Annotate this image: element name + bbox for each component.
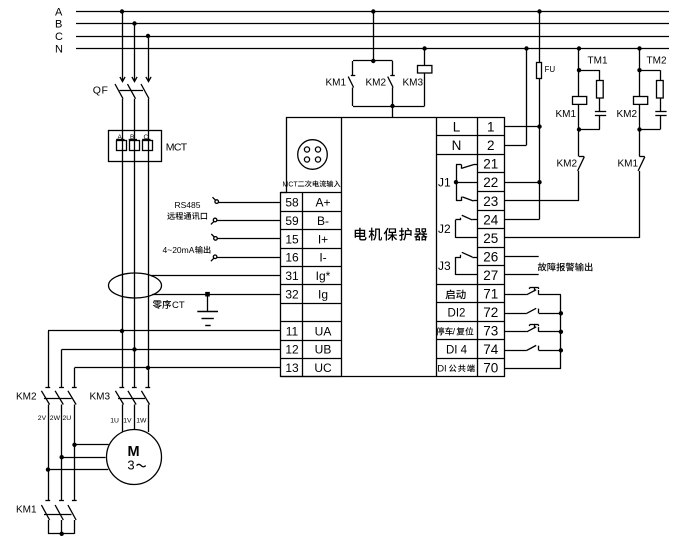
- svg-text:TM2: TM2: [647, 56, 667, 67]
- svg-text:74: 74: [483, 342, 499, 357]
- connector MCT secondary input: [283, 140, 341, 189]
- wire bus B: [76, 23, 669, 25]
- wire fused A to 22 and 24: [505, 127, 542, 220]
- motor protector unit U1 outline: [281, 118, 505, 377]
- svg-text:UC: UC: [314, 361, 332, 375]
- wire UC tap: [75, 366, 282, 388]
- svg-text:DI: DI: [437, 363, 447, 374]
- svg-text:QF: QF: [93, 85, 109, 97]
- svg-text:KM1: KM1: [556, 109, 577, 120]
- switch DI2 72: [505, 308, 561, 313]
- contactor coil KM3: [403, 46, 432, 106]
- wire terminal 27 stub: [505, 274, 539, 276]
- node C label: [55, 31, 63, 43]
- terminal strip right grid: [436, 117, 505, 377]
- interlock contact KM2: [557, 130, 585, 201]
- svg-text:N: N: [55, 44, 63, 56]
- svg-text:A: A: [55, 7, 63, 19]
- wire KM3 pole3 down: [148, 405, 150, 433]
- wire terminal 25 to KM2 coil: [505, 237, 640, 239]
- wire UA tap: [48, 329, 281, 388]
- wire motor lead 2: [60, 455, 106, 459]
- contactor coil KM1: [556, 97, 587, 121]
- switch start button 71: [505, 288, 561, 295]
- svg-text:11: 11: [286, 324, 299, 338]
- wire KM2 coil to junction: [637, 104, 641, 131]
- label DI4: [446, 344, 468, 356]
- wire contactor group bottom bar: [353, 104, 425, 118]
- svg-text:J2: J2: [438, 222, 451, 236]
- wire phase A drop: [120, 9, 125, 81]
- svg-text:KM1: KM1: [326, 78, 347, 89]
- label RS485 远程通讯口: [167, 200, 207, 220]
- svg-text:UB: UB: [315, 343, 332, 357]
- svg-text:72: 72: [483, 305, 498, 320]
- svg-text:C: C: [55, 31, 63, 43]
- wire motor lead 3: [46, 467, 108, 471]
- wire motor lead 1: [72, 443, 108, 447]
- svg-text:B: B: [55, 19, 62, 31]
- svg-text:2V: 2V: [38, 415, 47, 422]
- svg-text:FU: FU: [545, 65, 556, 74]
- label 启动: [446, 289, 466, 299]
- terminal numbers left column: [285, 196, 299, 376]
- svg-text:25: 25: [483, 231, 498, 246]
- svg-text:I+: I+: [318, 232, 328, 246]
- wire KM2 pole2 down: [61, 405, 63, 458]
- switch DI4 74: [505, 345, 561, 350]
- svg-text:58: 58: [285, 196, 299, 210]
- svg-text:B-: B-: [317, 214, 329, 228]
- svg-text:J1: J1: [438, 176, 451, 190]
- wire I+ to 15: [211, 234, 281, 240]
- svg-text:KM3: KM3: [403, 78, 424, 89]
- wire A to contactor group: [371, 9, 375, 63]
- wire terminal 23 to KM1 coil: [505, 200, 579, 202]
- svg-text:32: 32: [285, 288, 299, 302]
- relay contact J1: [438, 164, 478, 201]
- wire terminal 26 stub: [505, 256, 539, 258]
- svg-text:26: 26: [483, 249, 498, 264]
- svg-text:23: 23: [483, 194, 498, 209]
- svg-text:TM1: TM1: [588, 56, 608, 67]
- svg-text:KM2: KM2: [366, 78, 387, 89]
- svg-text:A+: A+: [315, 196, 330, 210]
- svg-text:1U: 1U: [110, 418, 119, 425]
- wire I- to 16: [211, 255, 281, 261]
- svg-text:/: /: [453, 326, 456, 336]
- contactor KM3 main contacts: [90, 388, 151, 405]
- wire KM2 pole2 to KM1: [61, 457, 63, 500]
- svg-text:L: L: [453, 120, 461, 135]
- terminal L label: [453, 120, 461, 135]
- node N label: [55, 44, 63, 56]
- svg-text:MCT: MCT: [166, 142, 188, 154]
- svg-text:Ig*: Ig*: [316, 269, 331, 283]
- wire bus C: [76, 36, 669, 38]
- interlock contact KM1: [618, 130, 645, 238]
- svg-text:1W: 1W: [136, 418, 147, 425]
- wire terminal L: [505, 124, 542, 128]
- terminal strip left grid: [281, 117, 342, 377]
- svg-text:31: 31: [285, 269, 299, 283]
- wire KM2 pole3 to KM1: [74, 445, 76, 501]
- svg-text:I-: I-: [319, 251, 326, 265]
- terminal numbers right column: [483, 120, 499, 376]
- wire RS485 A+ to 58: [213, 197, 282, 203]
- svg-text:73: 73: [483, 324, 498, 339]
- svg-text:KM2: KM2: [557, 159, 578, 170]
- wire contactor group top bar: [353, 60, 393, 62]
- svg-text:12: 12: [285, 343, 299, 357]
- svg-text:15: 15: [285, 232, 299, 246]
- svg-text:27: 27: [483, 268, 498, 283]
- node A label: [55, 7, 63, 19]
- relay contact J3: [438, 252, 478, 275]
- svg-text:22: 22: [483, 175, 498, 190]
- wire phase C drop: [146, 34, 151, 82]
- node ground junction: [205, 292, 210, 297]
- wire QF to MCT phase B: [134, 99, 136, 388]
- wire N to KM2 coil: [637, 46, 641, 96]
- wire KM3 pole1 down: [122, 405, 124, 433]
- svg-text:N: N: [452, 138, 462, 153]
- wire KM2 pole1 to KM1: [48, 470, 50, 501]
- wire KM2 pole3 down: [74, 405, 76, 445]
- ground: [197, 294, 218, 325]
- svg-text:13: 13: [285, 361, 299, 375]
- svg-text:2W: 2W: [50, 415, 61, 422]
- svg-text:UA: UA: [315, 324, 332, 338]
- label 停车/复位: [436, 326, 473, 336]
- label 4~20mA输出: [163, 245, 211, 255]
- label DI公共端: [437, 363, 474, 374]
- switch stop/reset button 73: [505, 325, 561, 332]
- svg-text:4~20mA: 4~20mA: [163, 245, 195, 255]
- contactor contact KM1: [326, 61, 356, 106]
- wire CT to 32 Ig: [152, 294, 281, 296]
- svg-text:24: 24: [483, 212, 499, 227]
- svg-text:2U: 2U: [63, 415, 72, 422]
- svg-text:DI2: DI2: [448, 307, 466, 319]
- svg-text:KM3: KM3: [90, 392, 111, 403]
- svg-text:MCT: MCT: [283, 182, 299, 189]
- terminal names left column: [314, 196, 332, 376]
- zero-sequence CT ring: [109, 273, 162, 298]
- svg-text:71: 71: [483, 287, 498, 302]
- wire KM2 pole1 down: [48, 405, 50, 470]
- svg-text:DI 4: DI 4: [446, 344, 468, 356]
- wire CT to 31 Ig*: [151, 275, 281, 277]
- wire KM3 pole2 down: [134, 405, 136, 430]
- wire RS485 B- to 59: [211, 218, 281, 224]
- wire bus N: [76, 48, 669, 50]
- svg-text:1: 1: [487, 120, 495, 135]
- node stop junction: [559, 330, 563, 334]
- wire terminal N: [505, 46, 529, 145]
- label 零序CT: [153, 300, 185, 311]
- svg-text:3: 3: [127, 458, 134, 473]
- svg-text:RS485: RS485: [175, 200, 201, 210]
- svg-text:70: 70: [483, 361, 498, 376]
- label 2V 2W 2U: [38, 415, 71, 422]
- capacitor TM2: [640, 98, 667, 130]
- label 故障报警输出: [538, 263, 593, 272]
- node DI2 junction: [559, 311, 563, 315]
- label DI2: [448, 307, 466, 319]
- wire UB tap: [62, 347, 282, 387]
- svg-text:KM1: KM1: [618, 159, 639, 170]
- svg-text:KM1: KM1: [16, 505, 37, 516]
- wire star point: [48, 520, 75, 536]
- snubber TM1 resistor: [579, 56, 608, 99]
- capacitor TM1: [579, 98, 606, 130]
- wire KM1 coil to junction: [577, 104, 581, 131]
- svg-text:KM2: KM2: [16, 392, 37, 403]
- wire phase B drop: [132, 21, 137, 81]
- svg-text:59: 59: [285, 214, 299, 228]
- current transformer MCT: [109, 131, 188, 162]
- circuit breaker QF: [93, 84, 149, 99]
- snubber TM2 resistor: [640, 56, 667, 99]
- contactor KM2 main contacts: [16, 388, 77, 405]
- motor M 3-phase: [107, 430, 162, 485]
- wire QF to MCT phase A: [122, 99, 124, 388]
- label 1U 1V 1W: [110, 418, 147, 425]
- contactor KM1 star contacts: [16, 501, 77, 521]
- svg-text:21: 21: [483, 157, 498, 172]
- node DI4 junction: [559, 348, 563, 352]
- contactor coil KM2: [617, 97, 648, 121]
- svg-text:2: 2: [487, 138, 495, 153]
- relay contact J2: [438, 215, 478, 238]
- wire QF to MCT phase C: [148, 99, 150, 388]
- fuse FU: [537, 9, 556, 126]
- svg-text:J3: J3: [438, 259, 451, 273]
- svg-text:16: 16: [285, 251, 299, 265]
- node B label: [55, 19, 62, 31]
- svg-text:KM2: KM2: [617, 109, 638, 120]
- svg-text:1V: 1V: [123, 418, 132, 425]
- wire N to KM1 coil: [577, 46, 581, 96]
- wire DI common 70: [505, 295, 561, 369]
- label 电机保护器: [355, 228, 428, 241]
- wire bus A: [76, 11, 669, 13]
- contactor contact KM2: [366, 61, 395, 106]
- terminal N label: [452, 138, 462, 153]
- svg-text:CT: CT: [172, 300, 185, 311]
- svg-text:Ig: Ig: [318, 288, 328, 302]
